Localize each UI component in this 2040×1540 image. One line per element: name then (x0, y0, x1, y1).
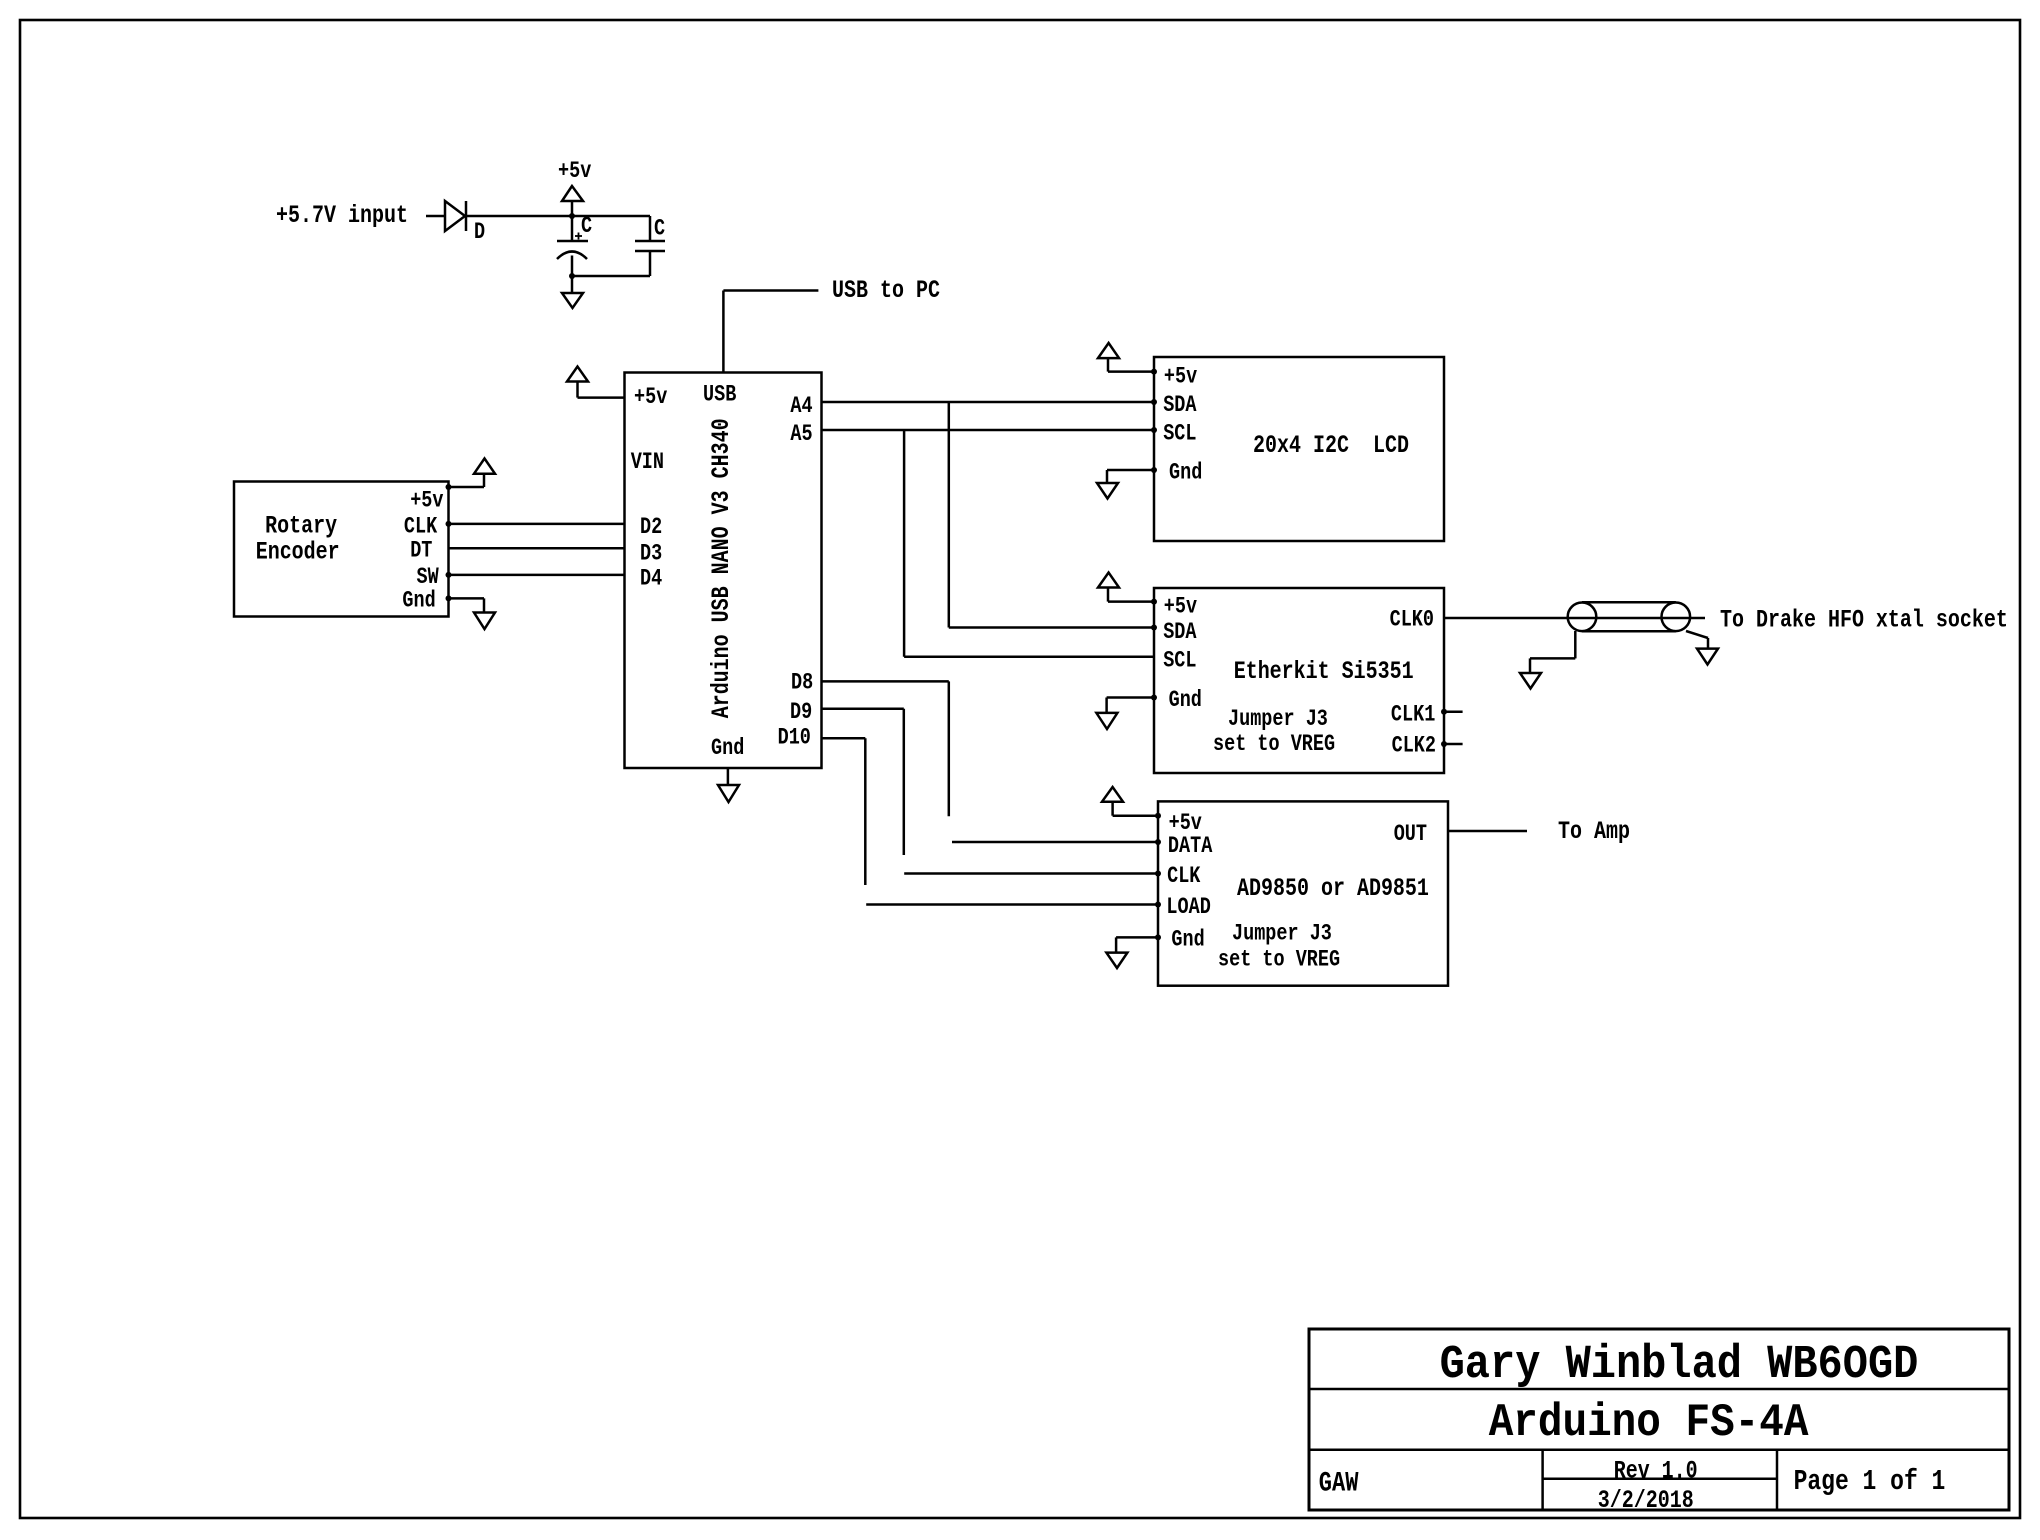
svg-text:AD9850 or AD9851: AD9850 or AD9851 (1237, 874, 1429, 903)
wire D8 to DATA branch (822, 681, 1159, 842)
diode D (445, 201, 485, 246)
junction CLK1 (1441, 709, 1447, 715)
stub CLK2 (1444, 743, 1463, 746)
svg-text:Arduino USB NANO V3 CH340: Arduino USB NANO V3 CH340 (707, 418, 736, 718)
capacitor C2 (635, 216, 665, 276)
power +5v arrow at Si5351 (1098, 573, 1154, 602)
svg-text:D: D (474, 220, 485, 245)
svg-text:D4: D4 (640, 567, 662, 592)
junction AD9850 LOAD (1155, 902, 1161, 908)
svg-text:CLK2: CLK2 (1392, 734, 1436, 759)
wire encoder CLK to D2 (449, 523, 625, 526)
stub CLK1 (1444, 711, 1463, 714)
svg-text:DT: DT (410, 539, 432, 564)
svg-text:D8: D8 (791, 671, 813, 696)
svg-text:CLK1: CLK1 (1391, 703, 1435, 728)
ground at coax near end (1520, 631, 1575, 689)
svg-text:GAW: GAW (1319, 1469, 1359, 1500)
svg-text:SDA: SDA (1163, 393, 1197, 418)
svg-text:+5v: +5v (558, 159, 592, 184)
AD9850 module box (1158, 801, 1448, 985)
wire bottom node to C2 (572, 275, 650, 278)
svg-text:+5v: +5v (634, 385, 668, 410)
junction LCD Gnd (1151, 467, 1157, 473)
svg-text:+5v: +5v (1169, 811, 1203, 836)
svg-text:D3: D3 (640, 542, 662, 567)
svg-text:USB to PC: USB to PC (832, 276, 940, 305)
svg-text:D2: D2 (640, 515, 662, 540)
svg-text:Jumper J3: Jumper J3 (1228, 707, 1328, 732)
svg-text:VIN: VIN (631, 450, 664, 475)
svg-text:+5v: +5v (1164, 595, 1198, 620)
wire diode to node (466, 215, 650, 218)
svg-text:Arduino FS-4A: Arduino FS-4A (1489, 1398, 1810, 1450)
svg-text:SW: SW (417, 565, 440, 590)
svg-text:+5v: +5v (1164, 365, 1198, 390)
svg-text:Gnd: Gnd (1169, 461, 1202, 486)
junction top node (569, 213, 575, 219)
junction AD9850 DATA (1155, 839, 1161, 845)
power +5v arrow at encoder (449, 459, 496, 488)
wire encoder SW to D4 (449, 574, 625, 577)
junction Si5351 SDA (1151, 625, 1157, 631)
junction encoder Gnd (446, 595, 452, 601)
junction encoder +5v (446, 484, 452, 490)
svg-text:C: C (581, 214, 592, 239)
svg-text:CLK0: CLK0 (1390, 608, 1434, 633)
svg-text:Gary Winblad WB6OGD: Gary Winblad WB6OGD (1440, 1339, 1919, 1392)
ground at encoder Gnd (449, 598, 496, 629)
power +5v symbol (top supply) (558, 159, 592, 216)
coax cable symbol (1568, 602, 1690, 631)
svg-text:+5.7V input: +5.7V input (276, 201, 408, 230)
svg-text:CLK: CLK (1167, 864, 1201, 889)
ground at AD9850 Gnd (1106, 937, 1158, 968)
capacitor C1 (polarized) (557, 214, 592, 276)
ground at Arduino Gnd (718, 768, 739, 802)
ground (power input) (562, 276, 583, 308)
svg-text:A4: A4 (790, 394, 812, 419)
power +5v arrow at LCD (1098, 343, 1154, 372)
junction LCD SDA (1151, 399, 1157, 405)
Rotary Encoder box (234, 482, 449, 617)
junction encoder CLK (446, 521, 452, 527)
junction encoder SW (446, 572, 452, 578)
ground at LCD Gnd (1097, 470, 1154, 499)
svg-text:Gnd: Gnd (402, 589, 435, 614)
junction AD9850 +5v (1155, 813, 1161, 819)
junction bottom node (569, 273, 575, 279)
wire OUT to amp (1448, 830, 1527, 833)
svg-text:set to VREG: set to VREG (1218, 948, 1340, 973)
LCD module box (1154, 357, 1444, 541)
svg-text:Jumper J3: Jumper J3 (1232, 922, 1332, 947)
svg-text:OUT: OUT (1394, 822, 1427, 847)
wire SDA branch (A4 net) (949, 402, 1154, 628)
svg-text:A5: A5 (790, 422, 812, 447)
svg-text:Page 1 of 1: Page 1 of 1 (1794, 1465, 1946, 1498)
svg-text:set to VREG: set to VREG (1213, 732, 1335, 757)
junction Si5351 Gnd (1151, 695, 1157, 701)
wire USB to PC (723, 291, 818, 373)
junction Si5351 +5v (1151, 599, 1157, 605)
svg-text:C: C (654, 217, 665, 242)
ground at coax far end (1686, 631, 1718, 665)
wire input to diode (426, 215, 445, 218)
junction AD9850 Gnd (1155, 934, 1161, 940)
svg-text:D9: D9 (790, 700, 812, 725)
svg-text:SDA: SDA (1163, 620, 1197, 645)
svg-text:SCL: SCL (1163, 422, 1196, 447)
svg-text:Rotary: Rotary (265, 512, 337, 541)
wire encoder DT to D3 (449, 547, 625, 550)
svg-text:LOAD: LOAD (1166, 895, 1210, 920)
wire D10 to LOAD branch (822, 738, 1159, 904)
junction AD9850 CLK (1155, 871, 1161, 877)
power +5v arrow at Arduino (567, 367, 625, 398)
Si5351 module box (1154, 588, 1444, 773)
wire D9 to CLK branch (822, 709, 1159, 874)
svg-text:3/2/2018: 3/2/2018 (1598, 1486, 1694, 1515)
title block (1309, 1329, 2009, 1515)
svg-text:CLK: CLK (404, 515, 438, 540)
junction LCD +5v (1151, 369, 1157, 375)
junction CLK2 (1441, 741, 1447, 747)
svg-text:D10: D10 (778, 726, 811, 751)
svg-text:SCL: SCL (1163, 649, 1196, 674)
svg-text:To Amp: To Amp (1558, 817, 1630, 846)
power +5v arrow at AD9850 (1102, 787, 1158, 816)
svg-text:DATA: DATA (1168, 834, 1213, 859)
svg-text:Gnd: Gnd (1169, 688, 1202, 713)
svg-text:USB: USB (703, 383, 737, 408)
ground at Si5351 Gnd (1096, 698, 1154, 730)
svg-text:Encoder: Encoder (256, 537, 340, 566)
svg-text:Gnd: Gnd (711, 737, 744, 762)
wire A4 to LCD SDA (822, 401, 1155, 404)
svg-text:+5v: +5v (410, 489, 444, 514)
svg-text:Rev 1.0: Rev 1.0 (1614, 1457, 1698, 1486)
svg-text:To Drake HFO xtal socket: To Drake HFO xtal socket (1720, 606, 2008, 635)
junction LCD SCL (1151, 427, 1157, 433)
wire A5 to LCD SCL (822, 429, 1155, 432)
svg-text:Etherkit Si5351: Etherkit Si5351 (1234, 657, 1414, 686)
svg-text:Gnd: Gnd (1171, 928, 1204, 953)
Arduino U1 box (625, 373, 822, 769)
wire SCL branch (A5 net) (904, 430, 1154, 657)
wire CLK0 output (1444, 617, 1705, 620)
svg-text:20x4 I2C LCD: 20x4 I2C LCD (1253, 431, 1409, 460)
